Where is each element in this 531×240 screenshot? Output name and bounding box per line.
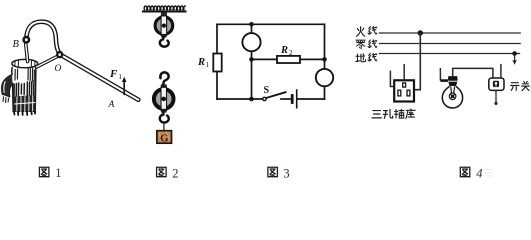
svg-text:2: 2 xyxy=(289,49,293,57)
lamp holder xyxy=(448,76,458,86)
live drop wire to socket xyxy=(414,33,420,90)
node on live wire xyxy=(418,30,423,35)
svg-text:1: 1 xyxy=(55,166,61,179)
fulcrum O xyxy=(56,51,63,58)
lamp live wire to switch xyxy=(453,68,493,78)
socket neutral wire (open end) xyxy=(390,71,394,87)
wire meter2 to bottom xyxy=(324,86,326,99)
switch bottom lead with terminal dot xyxy=(495,90,497,102)
pump cylinder body outline xyxy=(2,67,36,112)
svg-text:F: F xyxy=(109,68,118,80)
resistor R1 xyxy=(213,54,221,72)
svg-text:2: 2 xyxy=(172,166,178,179)
wire R2 to right xyxy=(300,58,325,60)
svg-text:R: R xyxy=(280,45,288,56)
socket right slot xyxy=(407,90,410,96)
movable pulley strap top xyxy=(161,84,167,88)
body dark lower block xyxy=(13,95,35,112)
earth terminal dot and arrow xyxy=(512,51,517,56)
figure 1: hand water pump lever xyxy=(2,22,139,115)
svg-text:1: 1 xyxy=(206,61,210,69)
body hatch shading middle xyxy=(14,81,34,96)
wire bottom right xyxy=(297,98,324,100)
switch button xyxy=(493,81,499,87)
switch box xyxy=(489,78,504,90)
svg-text:B: B xyxy=(13,39,20,50)
ceiling hatch xyxy=(144,6,186,10)
force arrow F1 xyxy=(123,80,125,95)
live wire line xyxy=(379,32,521,34)
earth wire line xyxy=(379,53,520,55)
figure 2: pulleys xyxy=(142,6,187,145)
node on top wire xyxy=(249,22,254,27)
piston rod xyxy=(26,43,28,62)
three-hole socket box xyxy=(394,80,414,101)
wire top xyxy=(217,23,325,25)
svg-text:3: 3 xyxy=(283,167,289,179)
cylinder rim xyxy=(12,59,38,67)
pivot B xyxy=(22,36,30,44)
battery positive plate xyxy=(296,89,298,108)
bottom node xyxy=(249,97,254,102)
svg-text:A: A xyxy=(108,100,115,110)
meter A2 circle xyxy=(316,69,333,86)
caption figure 3 xyxy=(268,167,290,181)
body bottom ragged edge xyxy=(14,112,35,115)
svg-text:R: R xyxy=(197,57,205,68)
figure 3: circuit xyxy=(197,22,333,109)
fixed pulley wheel xyxy=(155,16,173,38)
wire left lower xyxy=(216,72,218,100)
lamp neutral wire (open end) xyxy=(439,68,441,81)
right node xyxy=(322,57,327,62)
meter V1 circle xyxy=(242,33,260,51)
wire left upper xyxy=(216,24,218,53)
spout dark fill xyxy=(2,75,13,97)
caption figure 2 xyxy=(157,166,179,180)
fixed pulley strap top xyxy=(161,13,167,18)
wire right upper xyxy=(324,24,326,69)
curved link arch B to O xyxy=(26,22,59,54)
caption figure 1 xyxy=(39,166,61,180)
socket earth wire (open end) xyxy=(403,64,405,80)
wire meter1 to mid node xyxy=(251,51,253,59)
label lingxian (neutral wire) xyxy=(356,40,377,49)
switch S lever xyxy=(266,92,286,98)
svg-text:4: 4 xyxy=(476,167,482,179)
bulb xyxy=(442,86,462,108)
fixed pulley hook xyxy=(160,37,169,47)
label kaiguan (switch) xyxy=(511,82,530,91)
figure 4: household wiring xyxy=(356,26,530,118)
rope to weight xyxy=(163,124,165,131)
socket top slot xyxy=(403,83,406,87)
svg-text:1: 1 xyxy=(118,72,122,81)
battery negative plate xyxy=(291,94,294,104)
label huoxian (live wire) xyxy=(356,26,376,36)
body hatch shading upper xyxy=(15,68,34,81)
ceiling bar xyxy=(142,10,187,12)
bulb filament xyxy=(449,87,456,100)
weight G box xyxy=(157,131,172,144)
lever arm O to A xyxy=(61,55,139,100)
switch S pivot xyxy=(263,97,266,100)
movable pulley bottom hook xyxy=(160,113,169,123)
lamp left lead thick xyxy=(440,79,448,82)
wire bottom left xyxy=(217,98,263,100)
wire mid to R2 xyxy=(252,58,278,60)
spout drip marks xyxy=(3,97,8,103)
mid node xyxy=(249,57,254,62)
socket left slot xyxy=(398,90,401,96)
label sankong chazuo (three-hole socket) xyxy=(372,109,415,119)
wire to meter 1 xyxy=(251,24,253,33)
movable pulley wheel xyxy=(154,87,174,112)
svg-text:O: O xyxy=(55,64,62,74)
svg-text:S: S xyxy=(264,85,270,96)
caption figure 4 xyxy=(460,167,493,181)
resistor R2 xyxy=(277,56,300,63)
movable pulley top hook xyxy=(160,72,168,84)
wire mid node down to bottom xyxy=(251,59,253,99)
neutral wire line xyxy=(379,43,521,45)
switch contact stub xyxy=(281,98,291,100)
svg-text:G: G xyxy=(160,133,169,145)
label dixian (earth wire) xyxy=(356,53,377,62)
support strut to O xyxy=(37,56,59,67)
switch live lead (open end) xyxy=(500,64,502,78)
